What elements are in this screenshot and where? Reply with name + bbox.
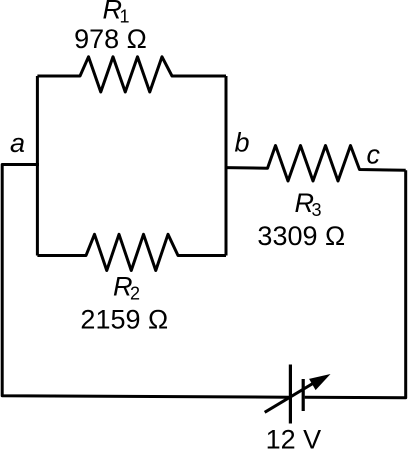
battery short plate [302, 379, 305, 411]
svg-text:2159 Ω: 2159 Ω [80, 305, 168, 335]
resistor R2 zigzag on bottom wire of parallel box [37, 234, 226, 270]
variable-source arrow shaft [265, 378, 322, 412]
svg-text:12 V: 12 V [266, 425, 322, 450]
resistor R1 zigzag on top wire of parallel box [37, 57, 226, 92]
wire node b to node c with resistor R3 zigzag [226, 146, 406, 182]
wire: node a lead, outer left rail, bottom rail to battery long plate [2, 165, 289, 398]
wire: right side of parallel box [225, 76, 228, 256]
battery long plate [289, 365, 292, 424]
svg-text:3: 3 [312, 200, 322, 220]
svg-text:b: b [235, 128, 250, 158]
label R3 [295, 188, 322, 220]
svg-text:3309 Ω: 3309 Ω [257, 221, 345, 251]
svg-text:a: a [10, 128, 25, 158]
svg-text:2: 2 [130, 284, 140, 304]
wire: left side of parallel box [36, 76, 39, 256]
wire: battery short plate to bottom-right corner, up right rail [305, 170, 406, 397]
variable-source arrowhead [309, 374, 330, 390]
svg-text:978 Ω: 978 Ω [74, 24, 147, 54]
label R2 [113, 272, 140, 304]
svg-text:c: c [367, 140, 381, 170]
label R1 [103, 0, 130, 27]
